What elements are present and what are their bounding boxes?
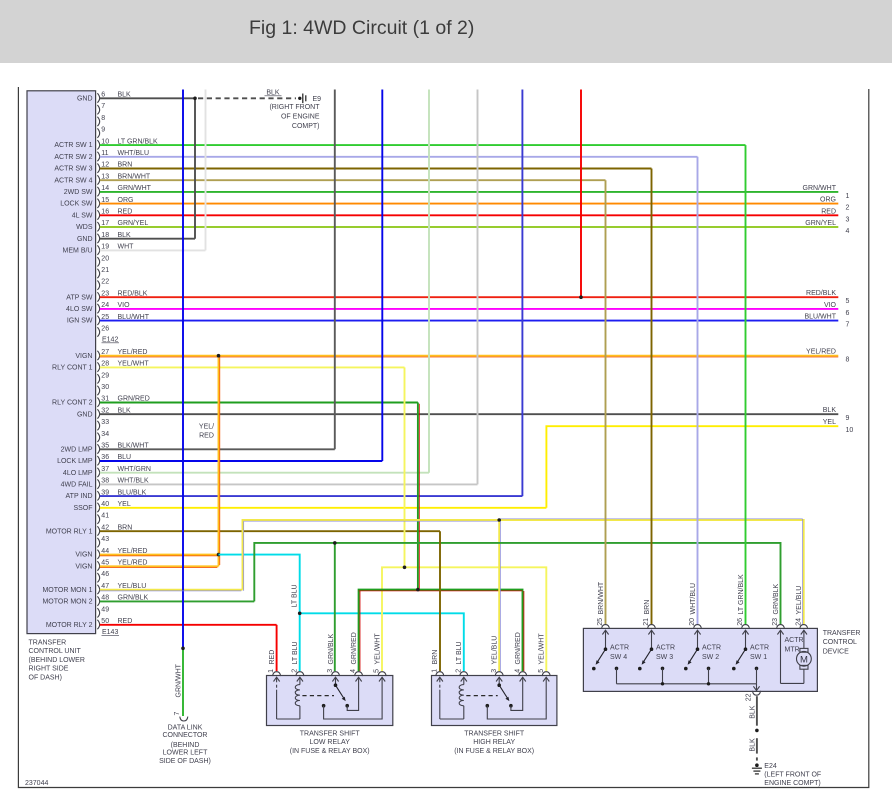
svg-text:LT BLU: LT BLU [292, 641, 299, 664]
svg-text:43: 43 [101, 536, 109, 543]
svg-text:ACTR: ACTR [750, 644, 769, 651]
TCU pin 36 terminal [97, 456, 99, 465]
svg-text:BLK: BLK [750, 738, 757, 752]
svg-text:RED/BLK: RED/BLK [806, 290, 836, 297]
svg-text:4LO LMP: 4LO LMP [63, 470, 93, 477]
svg-text:ACTR SW 1: ACTR SW 1 [54, 142, 92, 149]
svg-text:SIDE OF DASH): SIDE OF DASH) [159, 758, 211, 765]
wire pin 28 YEL/WHT to riser [100, 366, 405, 368]
TCU pin 40 terminal [97, 503, 99, 512]
TCU pin 17 terminal [97, 222, 99, 231]
junction LT BLU branch [298, 612, 302, 616]
high relay actuation dashed link [466, 695, 497, 697]
svg-text:GRN/WHT: GRN/WHT [176, 663, 183, 697]
svg-text:MOTOR MON 2: MOTOR MON 2 [42, 599, 92, 606]
wire pin 16 RED to right terminal 3 [100, 214, 839, 216]
svg-text:5: 5 [538, 669, 545, 673]
svg-text:4: 4 [846, 228, 850, 235]
caption E9 location [269, 104, 320, 130]
svg-text:TRANSFER SHIFT: TRANSFER SHIFT [464, 731, 525, 738]
svg-text:LT BLU: LT BLU [292, 584, 299, 607]
svg-text:COMPT): COMPT) [292, 123, 320, 130]
svg-text:GRN/BLK: GRN/BLK [773, 583, 780, 614]
connector E9 half terminal [298, 94, 306, 104]
wire pin 18 BLK to junction column [100, 238, 195, 240]
low relay contact to pin 4 [345, 704, 349, 708]
svg-text:VIGN: VIGN [75, 353, 92, 360]
TCD pin 20 terminal [694, 625, 702, 629]
DLC pin 7 terminal [180, 717, 188, 721]
TCD actuator switch SW 1 [732, 630, 758, 684]
svg-text:5: 5 [374, 669, 381, 673]
riser WHT pin 19 to top [205, 90, 207, 251]
svg-text:25: 25 [597, 618, 604, 626]
TCU pin 25 terminal [97, 316, 99, 325]
TCU pin 33 terminal [97, 421, 99, 430]
wire GRN/BLK pin 48 riser [254, 543, 334, 602]
TCU pin 20 terminal [97, 257, 99, 266]
svg-text:E143: E143 [102, 629, 118, 636]
junction GRN/BLK [333, 541, 337, 545]
data link connector caption [159, 725, 211, 766]
svg-text:34: 34 [101, 431, 109, 438]
wire pin 36 BLU to riser [100, 460, 383, 462]
wire YEL/BLU to high relay pin 3 [498, 520, 500, 671]
low relay pin 4 terminal [355, 672, 363, 676]
svg-text:GND: GND [77, 236, 93, 243]
svg-text:1: 1 [846, 193, 850, 200]
svg-text:E24: E24 [764, 763, 777, 770]
svg-text:BRN: BRN [432, 650, 439, 665]
svg-text:7: 7 [174, 712, 181, 716]
wire BRN pin 42 drop to high relay pin 1 [439, 531, 441, 671]
TCD pin 24 terminal [800, 625, 808, 629]
svg-text:IGN SW: IGN SW [67, 318, 93, 325]
svg-text:MOTOR MON 1: MOTOR MON 1 [42, 587, 92, 594]
wire pin 50 RED to low relay pin 1 column [100, 624, 277, 626]
svg-text:GND: GND [77, 411, 93, 418]
svg-text:E142: E142 [102, 336, 118, 343]
wire pin 6 BLK to junction [100, 97, 195, 99]
svg-text:ACTR SW 4: ACTR SW 4 [54, 177, 92, 184]
wire pin 32 BLK to right terminal 9 [100, 413, 839, 415]
wire GRN/RED to high relay pin 4 [418, 590, 523, 672]
svg-text:21: 21 [643, 618, 650, 626]
wire LT BLU branch to high relay pin 2 [300, 613, 464, 671]
svg-text:(LEFT FRONT OF: (LEFT FRONT OF [764, 772, 821, 779]
svg-text:46: 46 [101, 571, 109, 578]
wire pin 10 LT GRN/BLK to TCD pin 26 column [100, 144, 746, 146]
wire pin 35 BLK/WHT to riser [100, 448, 335, 450]
svg-text:3: 3 [846, 216, 850, 223]
transfer control unit caption [29, 640, 85, 682]
svg-text:TRANSFER: TRANSFER [29, 640, 67, 647]
TCD pin 25 terminal [602, 625, 610, 629]
TCU pin 30 terminal [97, 386, 99, 395]
svg-text:SW 4: SW 4 [610, 654, 627, 661]
svg-text:SW 2: SW 2 [702, 654, 719, 661]
high relay caption [454, 731, 534, 755]
svg-text:8: 8 [101, 115, 105, 122]
wire pin 17 GRN/YEL to right terminal 4 [100, 226, 839, 228]
low relay coil [277, 718, 300, 720]
junction pin 27 YEL/RED [217, 354, 221, 358]
junction pin 6 BLK [193, 97, 197, 101]
svg-text:30: 30 [101, 384, 109, 391]
wire pin 15 ORG to right terminal 2 [100, 203, 839, 205]
svg-text:RIGHT SIDE: RIGHT SIDE [29, 666, 69, 673]
svg-text:(BEHIND: (BEHIND [171, 742, 200, 749]
svg-text:ACTR: ACTR [610, 644, 629, 651]
TCU pin 34 terminal [97, 433, 99, 442]
TCU pin 27 terminal [97, 351, 99, 360]
TCU pin 49 terminal [97, 608, 99, 617]
wire GRN/BLK to TCD pin 23 [335, 543, 781, 625]
title [249, 17, 474, 40]
svg-text:(RIGHT FRONT: (RIGHT FRONT [269, 104, 320, 111]
svg-text:OF ENGINE: OF ENGINE [281, 114, 320, 121]
junction GRN/RED [416, 588, 420, 592]
junction bus SW3 [661, 682, 664, 685]
svg-text:10: 10 [846, 427, 854, 434]
wire pin 19 WHT to riser [100, 249, 206, 251]
wire pin 40 YEL to riser [100, 507, 547, 509]
wire YEL/BLU to TCD pin 24 [499, 520, 804, 625]
TCD actuator motor [777, 630, 811, 683]
svg-text:1: 1 [268, 669, 275, 673]
low relay contact to pin 5 [322, 704, 326, 708]
high relay pin 2 terminal [460, 672, 468, 676]
svg-text:4WD FAIL: 4WD FAIL [61, 482, 93, 489]
svg-text:WDS: WDS [76, 224, 93, 231]
svg-text:RED: RED [821, 208, 836, 215]
high relay internal pin1 arrow [437, 677, 443, 681]
svg-text:MOTOR RLY 2: MOTOR RLY 2 [46, 622, 93, 629]
TCD actuator switch SW 2 [684, 630, 710, 684]
svg-text:RLY CONT 2: RLY CONT 2 [52, 400, 93, 407]
TCU pin 23 terminal [97, 292, 99, 301]
svg-text:M: M [800, 654, 808, 665]
svg-text:SW 3: SW 3 [656, 654, 673, 661]
wire pin 44 YEL/RED to junction [100, 554, 219, 556]
high relay switch blade [499, 685, 508, 699]
wire YEL/RED riser pin27 to pin45 [218, 356, 220, 567]
svg-text:MOTOR RLY 1: MOTOR RLY 1 [46, 528, 93, 535]
TCU pin 50 terminal [97, 620, 99, 629]
svg-text:LOCK LMP: LOCK LMP [57, 458, 93, 465]
svg-text:DATA LINK: DATA LINK [168, 725, 203, 732]
TCU pin 6 terminal [97, 93, 99, 102]
svg-text:4L SW: 4L SW [72, 212, 93, 219]
TCU pin 8 terminal [97, 117, 99, 126]
wire GRN/RED to low relay pin 4 [359, 590, 418, 672]
wire pin 27 YEL/RED to right terminal 8 [100, 355, 839, 357]
TCU pin 26 terminal [97, 327, 99, 336]
junction BLU GRN/WHT splice [181, 647, 185, 651]
wire GRN/WHT to data link connector [182, 648, 184, 716]
svg-text:VIGN: VIGN [75, 563, 92, 570]
svg-text:9: 9 [101, 127, 105, 134]
TCD pin 21 terminal [648, 625, 656, 629]
high relay pin 5 terminal [542, 672, 550, 676]
wire YEL/WHT to high relay pin 5 [405, 567, 547, 671]
svg-text:26: 26 [101, 326, 109, 333]
wire pin 37 WHT/GRN to riser [100, 472, 429, 474]
svg-text:LT GRN/BLK: LT GRN/BLK [738, 574, 745, 615]
TCU pin 35 terminal [97, 444, 99, 453]
wire BLK splice to ground [756, 738, 758, 753]
svg-text:MEM B/U: MEM B/U [63, 248, 93, 255]
TCU pin 41 terminal [97, 515, 99, 524]
wire pin 47 YEL/BLU to riser [100, 589, 243, 591]
header bar [0, 0, 892, 63]
TCU pin 32 terminal [97, 409, 99, 418]
svg-text:BLK: BLK [750, 705, 757, 719]
wire pin 42 BRN to high relay pin 1 column [100, 530, 440, 532]
svg-text:2WD LMP: 2WD LMP [61, 446, 93, 453]
svg-text:ACTR SW 3: ACTR SW 3 [54, 166, 92, 173]
TCU pin 13 terminal [97, 175, 99, 184]
wire BRN/WHT pin 13 drop to TCD pin 25 [605, 180, 607, 624]
riser BLU to data link connector [182, 90, 184, 649]
TCU pin 39 terminal [97, 491, 99, 500]
wire pin 31 GRN/RED to riser [100, 402, 418, 404]
TCU pin 48 terminal [97, 596, 99, 605]
svg-text:GND: GND [77, 95, 93, 102]
svg-text:21: 21 [101, 267, 109, 274]
low relay pin 3 terminal [332, 672, 340, 676]
riser WHT/BLK pin 38 to top [477, 90, 479, 485]
svg-text:CONTROL: CONTROL [823, 639, 857, 646]
riser WHT/GRN pin 37 to top [428, 90, 430, 473]
junction YEL/WHT [403, 566, 407, 570]
wire BRN pin 12 drop to TCD pin 21 [651, 169, 653, 625]
svg-text:RED: RED [199, 432, 214, 439]
TCU pin 29 terminal [97, 374, 99, 383]
TCU pin 28 terminal [97, 362, 99, 371]
svg-text:ENGINE COMPT): ENGINE COMPT) [764, 780, 820, 787]
svg-text:ATP SW: ATP SW [66, 294, 93, 301]
TCU pin 21 terminal [97, 269, 99, 278]
wire pin 39 BLU/BLK to riser [100, 495, 523, 497]
TCU pin 16 terminal [97, 210, 99, 219]
junction BLK splice [755, 729, 759, 733]
svg-text:7: 7 [846, 322, 850, 329]
svg-text:20: 20 [101, 255, 109, 262]
svg-text:5: 5 [846, 298, 850, 305]
TCU pin 45 terminal [97, 561, 99, 570]
svg-text:E9: E9 [313, 96, 322, 103]
svg-text:29: 29 [101, 372, 109, 379]
low relay actuation dashed link [302, 695, 334, 697]
svg-text:YEL/WHT: YEL/WHT [374, 633, 381, 665]
svg-text:20: 20 [689, 618, 696, 626]
low relay switch common pin 3 [332, 677, 338, 681]
svg-text:VIGN: VIGN [75, 552, 92, 559]
transfer control device box [583, 628, 817, 691]
svg-text:VIO: VIO [824, 302, 837, 309]
TCU pin 31 terminal [97, 398, 99, 407]
svg-text:ATP IND: ATP IND [66, 493, 93, 500]
TCU pin 43 terminal [97, 538, 99, 547]
svg-text:YEL/WHT: YEL/WHT [539, 633, 546, 665]
riser BLK pin6 to pin18 [194, 98, 196, 238]
TCU pin 7 terminal [97, 105, 99, 114]
caption E24 location [764, 772, 821, 787]
svg-text:GRN/RED: GRN/RED [515, 632, 522, 664]
wire YEL/WHT riser pin 28 [404, 367, 406, 567]
svg-text:ACTR: ACTR [702, 644, 721, 651]
low relay switch blade [336, 685, 345, 699]
wire RED pin 50 drop to low relay pin 1 [276, 625, 278, 671]
high relay contact to pin 5 [486, 704, 490, 708]
svg-text:3: 3 [327, 669, 334, 673]
riser RED to pin 23 junction [580, 90, 582, 298]
svg-text:BRN: BRN [644, 600, 651, 615]
TCD actuator switch SW 4 [592, 630, 618, 684]
wire BLK dash at ground [756, 757, 758, 760]
TCD internal ground bus [617, 683, 757, 685]
svg-text:YEL: YEL [823, 419, 836, 426]
riser BLU/BLK pin 39 to top [521, 90, 523, 497]
TCU pin 9 terminal [97, 128, 99, 137]
svg-text:ACTR: ACTR [656, 644, 675, 651]
wire GRN/BLK to low relay pin 3 [334, 543, 336, 671]
TCU pin 46 terminal [97, 573, 99, 582]
svg-text:BLK: BLK [823, 407, 837, 414]
svg-text:23: 23 [772, 618, 779, 626]
TCD pin 26 terminal [742, 625, 750, 629]
wire pin 48 GRN/BLK to riser [100, 600, 255, 602]
svg-text:RED: RED [269, 650, 276, 665]
TCU pin 38 terminal [97, 479, 99, 488]
low relay box [267, 676, 393, 726]
junction pin 44 YEL/RED splice [217, 553, 221, 557]
svg-text:9: 9 [846, 415, 850, 422]
wire WHT/BLU pin 11 drop to TCD pin 20 [697, 157, 699, 625]
svg-text:SW 1: SW 1 [750, 654, 767, 661]
high relay switch common pin 3 [496, 677, 502, 681]
svg-text:6: 6 [846, 310, 850, 317]
TCD pin 22 terminal [753, 691, 761, 695]
svg-text:2: 2 [846, 205, 850, 212]
svg-text:LOWER LEFT: LOWER LEFT [163, 750, 208, 757]
svg-text:(IN FUSE & RELAY BOX): (IN FUSE & RELAY BOX) [454, 748, 534, 755]
svg-text:8: 8 [846, 357, 850, 364]
high relay pin 4 terminal [519, 672, 527, 676]
svg-text:YEL/RED: YEL/RED [806, 349, 836, 356]
svg-text:ORG: ORG [820, 197, 836, 204]
high relay coil [440, 718, 464, 720]
svg-text:(IN FUSE & RELAY BOX): (IN FUSE & RELAY BOX) [290, 748, 370, 755]
svg-text:33: 33 [101, 419, 109, 426]
svg-text:4: 4 [514, 669, 521, 673]
TCU pin 10 terminal [97, 140, 99, 149]
svg-text:RLY CONT 1: RLY CONT 1 [52, 365, 93, 372]
wire pin 13 BRN/WHT to TCD pin 25 column [100, 179, 606, 181]
high relay pin 3 terminal [495, 672, 503, 676]
svg-text:GRN/YEL: GRN/YEL [805, 220, 836, 227]
TCU pin 15 terminal [97, 199, 99, 208]
transfer control unit connector box [27, 91, 96, 634]
junction YEL/BLU [497, 518, 501, 522]
high relay contact to pin 4 [509, 704, 513, 708]
low relay caption [290, 731, 370, 755]
wire pin 25 BLU/WHT to right terminal 7 [100, 320, 839, 322]
svg-text:LT BLU: LT BLU [456, 641, 463, 664]
TCU pin 37 terminal [97, 468, 99, 477]
riser BLK/WHT pin 35 to top [334, 90, 336, 450]
TCD caption [823, 630, 861, 656]
svg-text:LOCK SW: LOCK SW [60, 201, 93, 208]
svg-text:4LO SW: 4LO SW [66, 306, 93, 313]
low relay pin 5 terminal [378, 672, 386, 676]
svg-text:237044: 237044 [25, 780, 48, 787]
svg-text:3: 3 [491, 669, 498, 673]
svg-text:ACTR SW 2: ACTR SW 2 [54, 154, 92, 161]
wire pin 38 WHT/BLK to riser [100, 483, 478, 485]
svg-text:BRN/WHT: BRN/WHT [598, 581, 605, 614]
wire YEL pin 40 riser to right terminal 10 [546, 426, 838, 508]
TCU pin 47 terminal [97, 585, 99, 594]
wire LT BLU splice to relays [219, 555, 300, 672]
high relay pin 1 terminal [436, 672, 444, 676]
svg-text:SSOF: SSOF [73, 505, 92, 512]
svg-text:49: 49 [101, 606, 109, 613]
svg-text:26: 26 [737, 618, 744, 626]
low relay pin 2 terminal [296, 672, 304, 676]
TCU pin 12 terminal [97, 164, 99, 173]
svg-text:1: 1 [431, 669, 438, 673]
svg-text:LOW RELAY: LOW RELAY [310, 739, 351, 746]
wire pin 23 RED/BLK to right terminal 5 [100, 296, 839, 298]
TCD actuator switch SW 3 [638, 630, 664, 684]
wire YEL/BLU pin 47 riser [243, 520, 500, 590]
ground E24 [752, 763, 762, 774]
TCU pin 42 terminal [97, 526, 99, 535]
svg-text:OF DASH): OF DASH) [29, 674, 62, 681]
wire pin 45 YEL/RED to junction column [100, 565, 219, 567]
wire BLK TCD pin 22 down [756, 696, 758, 726]
svg-text:22: 22 [101, 279, 109, 286]
TCU pin 19 terminal [97, 245, 99, 254]
svg-text:DEVICE: DEVICE [823, 649, 849, 656]
svg-text:7: 7 [101, 103, 105, 110]
wire YEL/WHT to low relay pin 5 [382, 567, 405, 671]
svg-text:TRANSFER: TRANSFER [823, 630, 861, 637]
TCD pin 23 terminal [777, 625, 785, 629]
wire GRN/RED riser pin 31 [417, 403, 419, 590]
wire LT GRN/BLK pin 10 drop to TCD pin 26 [745, 145, 747, 624]
svg-text:BLU/WHT: BLU/WHT [805, 314, 837, 321]
wire pin 24 VIO to right terminal 6 [100, 308, 839, 310]
svg-text:MTR: MTR [785, 647, 800, 654]
svg-text:2WD SW: 2WD SW [64, 189, 93, 196]
low relay internal pin1 arrow [274, 677, 280, 681]
svg-text:22: 22 [746, 693, 753, 701]
TCU pin 44 terminal [97, 550, 99, 559]
svg-text:24: 24 [795, 618, 802, 626]
wire pin 6 BLK dashed to E9 [198, 97, 296, 99]
svg-text:2: 2 [292, 669, 299, 673]
svg-text:GRN/BLK: GRN/BLK [328, 633, 335, 664]
svg-text:GRN/WHT: GRN/WHT [803, 185, 837, 192]
TCU pin 18 terminal [97, 234, 99, 243]
wire pin 14 GRN/WHT to right terminal 1 [100, 191, 839, 193]
svg-text:HIGH RELAY: HIGH RELAY [473, 739, 515, 746]
TCD pin 22 exit [756, 684, 758, 691]
low relay pin 1 terminal [273, 672, 281, 676]
